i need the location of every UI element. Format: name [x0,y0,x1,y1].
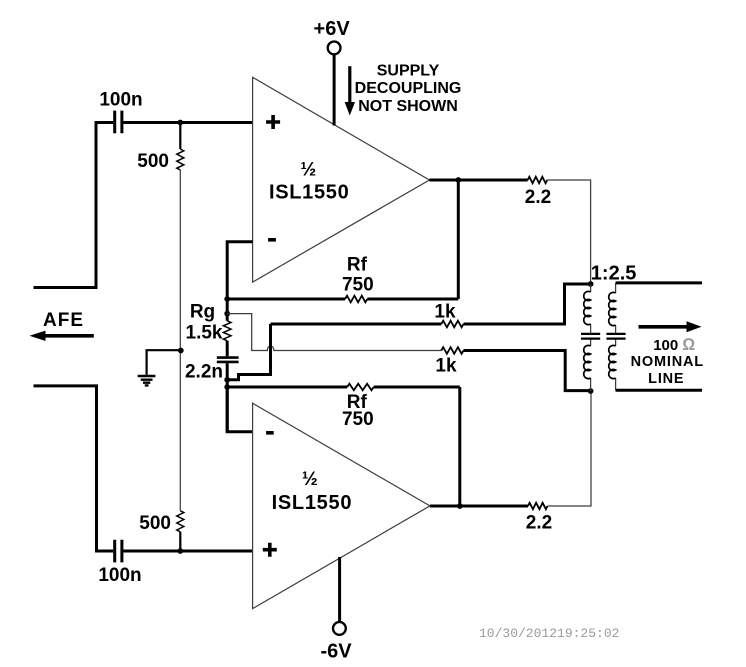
node (2.2n bottom junction) [224,377,230,383]
svg-text:1k: 1k [435,356,457,377]
transformer secondary winding [606,283,625,390]
capacitor C3 2.2n [185,341,239,432]
resistor R4 1k (bottom, to transformer) [435,347,463,376]
svg-text:+6V: +6V [314,18,351,40]
node B (bottom input junction) [177,548,183,554]
svg-text:Rf: Rf [347,255,368,276]
svg-text:Rg: Rg [190,301,215,322]
svg-text:-6V: -6V [320,641,352,663]
AFE label and arrow [30,310,94,341]
wire center rail (thin) [179,170,181,511]
svg-text:100n: 100n [98,565,141,586]
svg-text:100Ω: 100Ω [653,335,695,354]
svg-text:100n: 100n [99,90,142,111]
wire secondary top output [616,281,702,284]
resistor R6 2.2 (bottom output) [526,503,552,534]
wire U2 output [430,505,528,508]
svg-text:1.5k: 1.5k [186,323,223,344]
-6V supply terminal [320,557,352,663]
supply decoupling note text [355,62,462,115]
resistor R3 2.2 (top output) [525,177,551,208]
node (rail/ground junction) [178,348,184,354]
100 ohm nominal line label [631,335,704,387]
wire top input horizontal + left stub [34,123,253,288]
node (bottom Rf junction) [224,384,230,390]
svg-text:ISL1550: ISL1550 [272,492,353,514]
+6V supply terminal [314,18,351,126]
node (U1 output junction) [455,177,461,183]
svg-text:750: 750 [342,274,374,295]
resistor R5 1k (top, to transformer) [271,302,464,328]
capacitor C1 100n [99,90,142,134]
wire U1 output [429,179,527,182]
resistor Rf 750 (top) [227,255,458,303]
svg-text:LINE: LINE [648,371,684,387]
wire U2 inverting input bracket [227,387,252,432]
svg-text:DECOUPLING: DECOUPLING [355,80,462,97]
svg-text:NOMINAL: NOMINAL [631,354,704,370]
svg-text:750: 750 [342,409,374,430]
node (U2 output junction) [457,503,463,509]
svg-text:1:2.5: 1:2.5 [591,263,637,285]
wire top 1k bracket (thick L from top 1k down to 2.2n node) [227,324,270,380]
svg-text:2.2: 2.2 [525,187,551,208]
svg-text:10/30/201219:25:02: 10/30/201219:25:02 [479,626,619,641]
svg-text:½: ½ [300,159,316,180]
svg-text:500: 500 [137,151,169,172]
wire 2.2 to transformer (thin) [547,180,590,284]
svg-text:SUPPLY: SUPPLY [377,62,440,79]
svg-text:AFE: AFE [43,310,84,331]
svg-text:2.2n: 2.2n [185,362,223,383]
wire secondary bottom output [616,389,702,392]
op-amp U2 (bottom half ISL1550) [253,403,430,608]
supply decoupling note arrow [345,66,355,115]
node (transformer primary bottom) [588,388,594,394]
wire top 1k to transformer bracket [464,284,591,324]
svg-text:ISL1550: ISL1550 [269,181,350,203]
capacitor in primary winding [581,334,600,339]
node A (top input junction) [177,120,183,126]
resistor Rg 1.5k [186,299,231,344]
capacitor C2 100n (bottom) [98,540,141,586]
resistor Rf 750 (bottom) [227,384,460,430]
op-amp U1 (top half ISL1550) [253,77,430,282]
node (U1 feedback junction) [224,296,230,302]
resistor R2 500 (bottom) [139,511,184,551]
output arrow [639,321,702,332]
wire 2.2 bottom to transformer (thin) [548,391,592,506]
transformer primary winding [581,284,600,391]
svg-text:NOT SHOWN: NOT SHOWN [358,98,458,115]
svg-text:2.2: 2.2 [526,513,552,534]
transformer T1 1:2.5 [591,263,637,285]
wire U1 inverting input bracket [227,242,252,299]
wire U1 feedback vertical [457,180,460,299]
svg-text:500: 500 [139,513,171,534]
wire thin bracket from Rg node to bottom 1k (with hop over vertical) [227,314,441,351]
wire U2 feedback vertical [458,387,461,506]
wire bottom input vertical + stub [34,386,253,551]
wire 1k bottom to transformer bracket [464,351,591,391]
svg-text:1k: 1k [434,302,456,323]
capacitor in secondary winding [606,334,625,339]
node (transformer primary top) [588,281,594,287]
resistor R1 500 (top) [137,123,184,173]
ground [138,376,156,385]
node (Rg top junction) [224,311,230,317]
svg-text:½: ½ [302,469,318,490]
wire ground spur [147,350,181,375]
